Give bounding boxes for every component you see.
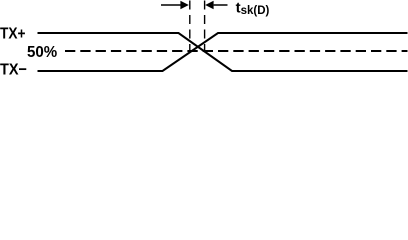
skew marker right vertical dashed line	[204, 1, 206, 52]
svg-text:tsk(D): tsk(D)	[236, 0, 270, 17]
50% reference dashed line	[65, 50, 408, 52]
TX- waveform	[38, 33, 408, 71]
left arrowhead pointing right	[180, 1, 188, 9]
left arrow line	[161, 4, 181, 6]
right arrow line	[214, 4, 228, 6]
svg-text:50%: 50%	[27, 44, 57, 61]
TX+ waveform	[38, 33, 408, 71]
svg-text:TX+: TX+	[0, 26, 26, 43]
svg-text:TX−: TX−	[0, 62, 27, 77]
right arrowhead pointing left	[205, 1, 213, 9]
skew marker left vertical dashed line	[189, 1, 191, 52]
